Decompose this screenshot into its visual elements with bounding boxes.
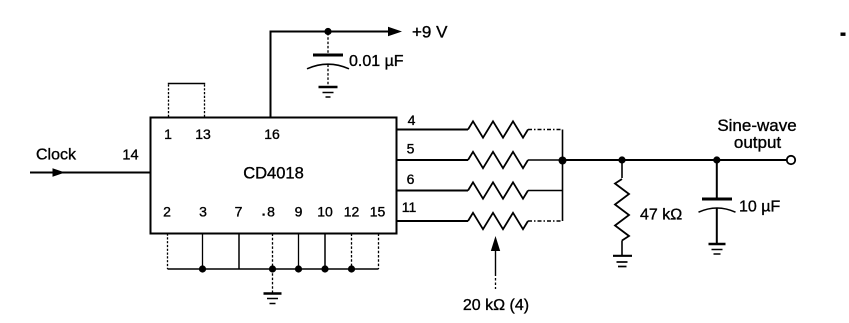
svg-text:output: output [734, 133, 782, 152]
svg-text:16: 16 [264, 126, 280, 142]
svg-text:1: 1 [164, 126, 172, 142]
svg-text:11: 11 [402, 199, 417, 215]
svg-text:7: 7 [235, 204, 243, 220]
svg-text:2: 2 [163, 204, 171, 220]
svg-text:3: 3 [199, 204, 207, 220]
svg-text:12: 12 [344, 204, 360, 220]
svg-text:13: 13 [195, 126, 211, 142]
svg-text:CD4018: CD4018 [243, 165, 304, 183]
svg-text:10 µF: 10 µF [739, 199, 780, 216]
svg-text:Clock: Clock [36, 147, 77, 164]
svg-text:9: 9 [295, 204, 303, 220]
svg-text:5: 5 [407, 141, 415, 157]
svg-text:10: 10 [317, 204, 333, 220]
svg-text:4: 4 [408, 112, 416, 128]
svg-text:20 kΩ (4): 20 kΩ (4) [463, 297, 529, 314]
svg-text:8: 8 [267, 204, 275, 220]
svg-text:0.01 µF: 0.01 µF [349, 53, 404, 70]
svg-text:15: 15 [370, 204, 386, 220]
svg-text:6: 6 [407, 171, 415, 187]
svg-text:+9 V: +9 V [412, 23, 448, 42]
svg-text:47 kΩ: 47 kΩ [640, 207, 682, 224]
svg-text:14: 14 [122, 148, 138, 164]
